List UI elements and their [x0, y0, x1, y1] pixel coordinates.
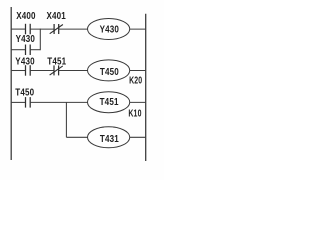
svg-text:X400: X400 [16, 10, 35, 21]
wire Y430 to T451 [30, 70, 54, 72]
coil T450 [88, 60, 130, 81]
svg-text:T451: T451 [100, 96, 119, 107]
svg-text:T450: T450 [100, 66, 119, 77]
svg-text:Y430: Y430 [16, 33, 35, 44]
wire branch Y430 holding from rail [11, 49, 25, 51]
wire coil T450 to right rail [130, 70, 146, 72]
left power rail [10, 7, 12, 160]
wire coil Y430 to right rail [130, 28, 146, 30]
wire coil T431 to right rail [130, 136, 146, 138]
coil T451 [88, 92, 130, 113]
label K10 timer constant [128, 107, 141, 119]
wire X400 to X401 [30, 28, 54, 30]
contact T451 (NC) [50, 65, 63, 75]
label Y430 (rung2 contact) [15, 56, 34, 67]
svg-text:T450: T450 [15, 87, 34, 98]
output branch vertical [65, 102, 67, 137]
svg-text:X401: X401 [47, 10, 66, 21]
label T451 (rung2 NC contact) [47, 56, 66, 67]
wire coil T451 to right rail [130, 101, 146, 103]
wire rung1 rail to X400 [11, 28, 25, 30]
svg-text:T431: T431 [100, 133, 119, 144]
svg-text:T451: T451 [47, 56, 66, 67]
svg-text:Y430: Y430 [100, 24, 119, 35]
label T450 (rung3 contact) [15, 87, 34, 98]
contact Y430 holding [26, 45, 31, 56]
wire rung2 rail to Y430 contact [11, 70, 25, 72]
label T431 (coil text) [100, 133, 119, 144]
coil Y430 [88, 19, 130, 40]
svg-text:K20: K20 [129, 74, 142, 86]
wire T450 to coil T451 [30, 101, 87, 103]
contact X401 (NC) [50, 24, 63, 34]
contact Y430 [26, 65, 31, 76]
wire T451 to coil T450 [59, 70, 88, 72]
wire X401 to coil Y430 [59, 28, 88, 30]
label X401 [47, 10, 66, 21]
label T450 (coil text) [100, 66, 119, 77]
label K20 timer constant [129, 74, 142, 86]
svg-text:Y430: Y430 [15, 56, 34, 67]
wire branch to coil T431 [66, 136, 87, 138]
contact T450 [26, 97, 31, 108]
label T451 (coil text) [100, 96, 119, 107]
wire rung3 rail to T450 contact [11, 101, 25, 103]
branch junction vertical [39, 29, 41, 51]
wire branch to junction [30, 49, 40, 51]
right power rail [145, 14, 147, 161]
svg-text:K10: K10 [128, 107, 141, 119]
coil T431 [88, 127, 130, 148]
contact X400 [26, 24, 31, 35]
label Y430 (holding contact) [16, 33, 35, 44]
label Y430 (coil text) [100, 24, 119, 35]
label X400 [16, 10, 35, 21]
